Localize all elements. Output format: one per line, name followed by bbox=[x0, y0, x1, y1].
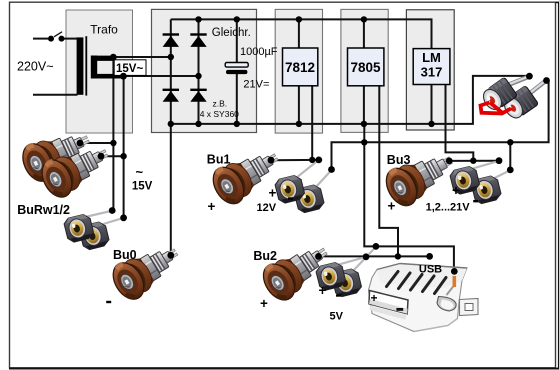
node Bu3 plus junction bbox=[470, 158, 476, 164]
Bu2 socket pair leads bbox=[337, 247, 376, 271]
wire U1 output to Bu1 bbox=[311, 86, 313, 160]
svg-text:15V: 15V bbox=[132, 181, 153, 193]
U3 chip box LM317 bbox=[413, 49, 450, 85]
BuRw2 binding post bbox=[36, 135, 116, 202]
svg-text:317: 317 bbox=[421, 65, 443, 80]
rectifier box Gleichr. bbox=[152, 9, 257, 132]
svg-text:7805: 7805 bbox=[350, 60, 381, 75]
Bu0 binding post bbox=[107, 235, 187, 305]
BuRw1 binding post bbox=[17, 121, 96, 186]
node BuRw2 lead bbox=[98, 153, 105, 160]
svg-text:+: + bbox=[208, 199, 216, 214]
transformer T1 primary bar bbox=[77, 37, 84, 94]
transformer core bbox=[85, 36, 87, 95]
BuRw socket pair bbox=[78, 220, 111, 252]
node Bu3 pair plus lead bbox=[496, 157, 503, 164]
diode D4 bbox=[190, 89, 206, 102]
svg-text:+: + bbox=[388, 199, 396, 214]
node rectifier AC1 bbox=[168, 54, 174, 60]
node BuRw1 lead bbox=[77, 140, 84, 147]
Bu3 socket pair bbox=[470, 174, 503, 206]
svg-text:21V=: 21V= bbox=[243, 79, 269, 91]
svg-text:+: + bbox=[452, 183, 460, 198]
svg-text:1000µF: 1000µF bbox=[240, 46, 278, 58]
node plug P1 pin bbox=[543, 77, 550, 84]
svg-text:~: ~ bbox=[136, 165, 144, 180]
node switch contact right bbox=[59, 36, 65, 42]
svg-text:BuRw1/2: BuRw1/2 bbox=[17, 203, 70, 217]
svg-text:7812: 7812 bbox=[285, 60, 315, 75]
regulator cage U3 LM317 bbox=[406, 10, 454, 130]
svg-text:1,2...21V: 1,2...21V bbox=[426, 202, 471, 214]
red wire of plug pair bbox=[481, 103, 512, 114]
Bu1 binding post bbox=[207, 139, 287, 209]
switch S1 lever bbox=[54, 32, 62, 37]
node bottom rail C1 bbox=[234, 121, 240, 127]
svg-text:z.B.: z.B. bbox=[213, 99, 228, 109]
Bu3 socket pair leads bbox=[471, 161, 510, 179]
node 12V junction bbox=[309, 157, 315, 163]
15V~ label box bbox=[114, 60, 146, 76]
plug pair pins bbox=[508, 77, 546, 94]
wire Bu3 pair minus drop bbox=[509, 142, 511, 170]
svg-text:+: + bbox=[269, 186, 277, 201]
minus Bu2 pair bbox=[336, 294, 341, 296]
node bottom rail U3 gnd bbox=[428, 121, 434, 127]
svg-text:Bu2: Bu2 bbox=[253, 249, 277, 263]
U2 chip box 7805 bbox=[348, 48, 384, 86]
rca plug P2 bbox=[480, 77, 518, 113]
wire switch to primary bbox=[62, 38, 78, 40]
node secondary top tap bbox=[110, 54, 117, 61]
Bu2 socket pair bbox=[330, 267, 363, 299]
minus Bu3 pair bbox=[473, 200, 478, 202]
U1 chip box 7812 bbox=[283, 48, 318, 86]
wire secondary top to rectifier bbox=[110, 56, 171, 58]
wire Bu3 plus line bbox=[449, 160, 499, 162]
node rectifier AC2 bbox=[195, 73, 201, 79]
Bu1 socket pair bbox=[293, 183, 326, 215]
node ground line Bu3 drop bbox=[507, 139, 513, 145]
diode D1 bbox=[163, 33, 179, 47]
wire U3 ground bbox=[431, 85, 433, 124]
wire top rail bbox=[171, 19, 432, 48]
wire rectifier right column bbox=[198, 19, 200, 124]
image edge right bbox=[558, 2, 559, 370]
wire AC B branch bbox=[101, 155, 124, 157]
wire capacitor top bbox=[236, 19, 238, 62]
wire capacitor bottom bbox=[236, 72, 238, 124]
wire ground distribution bbox=[332, 81, 549, 170]
svg-text:Bu0: Bu0 bbox=[113, 248, 137, 262]
node ground line U2 bridge bbox=[361, 139, 367, 145]
wire secondary bottom to rectifier bbox=[120, 75, 199, 77]
wire U2 ground bbox=[363, 86, 365, 124]
capacitor C1 plates bbox=[225, 63, 248, 68]
wire U2 input bbox=[363, 19, 365, 48]
svg-text:Trafo: Trafo bbox=[90, 23, 118, 37]
node bottom rail minus bbox=[168, 121, 174, 127]
node Bu0 lead bbox=[167, 252, 174, 259]
wire U1 ground bbox=[298, 86, 300, 124]
Bu3 binding post bbox=[380, 142, 460, 211]
node top rail U2 in bbox=[361, 16, 367, 22]
regulator cage U2 7805 bbox=[341, 9, 388, 132]
Bu2 binding post bbox=[257, 234, 337, 306]
diode D2 bbox=[190, 33, 206, 47]
svg-text:+: + bbox=[260, 296, 268, 311]
node Bu3 pair minus lead bbox=[507, 167, 514, 174]
wire 12V plus line bbox=[271, 159, 319, 161]
wire minus rail to Bu0 bbox=[170, 19, 172, 255]
node Bu2 pair minus lead bbox=[373, 243, 380, 250]
node Bu1 pair minus lead bbox=[328, 166, 335, 173]
wire AC A branch bbox=[80, 142, 113, 144]
wire 220V live to switch bbox=[33, 38, 48, 40]
svg-text:USB: USB bbox=[419, 264, 442, 276]
node USB plus bbox=[426, 253, 433, 260]
node top rail D2 bbox=[195, 16, 201, 22]
BuRw socket pair leads bbox=[85, 211, 123, 225]
node top rail C1 bbox=[234, 16, 240, 22]
image edge bottom bbox=[9, 368, 559, 370]
node bottom rail U2 gnd bbox=[361, 121, 367, 127]
minus Bu0 bbox=[106, 301, 111, 303]
wire AC B down bbox=[123, 76, 125, 218]
svg-text:LM: LM bbox=[422, 50, 441, 65]
svg-text:220V~: 220V~ bbox=[17, 60, 54, 74]
node Bu3 lead bbox=[446, 158, 453, 165]
wire ground bridge to usb bbox=[364, 124, 454, 272]
svg-text:Bu1: Bu1 bbox=[207, 153, 231, 167]
node bottom rail U1 gnd bbox=[296, 121, 302, 127]
node plug P2 pin bbox=[526, 73, 533, 80]
node USB minus bbox=[451, 268, 458, 275]
wire 5V plus line bbox=[319, 255, 430, 257]
node BuRw pair lead2 bbox=[120, 214, 127, 221]
svg-text:+: + bbox=[319, 283, 327, 298]
node Bu2 lead bbox=[315, 253, 322, 260]
wire bottom rail bbox=[171, 76, 530, 124]
node bottom rail D4 bbox=[195, 121, 201, 127]
svg-text:15V~: 15V~ bbox=[116, 63, 143, 75]
svg-text:5V: 5V bbox=[330, 311, 344, 323]
svg-text:12V: 12V bbox=[257, 202, 277, 214]
regulator cage U1 7812 bbox=[275, 9, 322, 133]
node 5V junction bbox=[395, 253, 401, 259]
node secondary bottom tap bbox=[120, 73, 127, 80]
svg-text:Gleichr.: Gleichr. bbox=[212, 27, 251, 39]
node Bu1 pair plus lead bbox=[315, 157, 322, 164]
transformer secondary winding bbox=[91, 56, 124, 79]
node AC B branch bbox=[120, 153, 126, 159]
image edge top right stub bbox=[556, 2, 559, 4]
node switch contact left bbox=[48, 36, 54, 42]
node BuRw pair lead1 bbox=[109, 207, 116, 214]
wire 220V return bbox=[33, 94, 78, 96]
svg-text:4 x SY360: 4 x SY360 bbox=[200, 109, 239, 119]
node AC A branch bbox=[110, 140, 116, 146]
wire AC A down bbox=[112, 57, 114, 210]
Bu1 socket pair leads bbox=[296, 161, 332, 188]
node Bu2 pair plus lead bbox=[363, 253, 370, 260]
svg-text:+: + bbox=[371, 291, 378, 305]
node Bu1 lead bbox=[268, 157, 275, 164]
diode D3 bbox=[163, 89, 179, 102]
wire U1 input bbox=[298, 19, 300, 48]
wire U2 output to 5V line bbox=[379, 86, 398, 257]
node top rail U1 in bbox=[296, 16, 302, 22]
Trafo box bbox=[66, 10, 133, 133]
minus Bu1 pair bbox=[288, 197, 293, 199]
rca plug P1 bbox=[501, 86, 539, 122]
svg-text:Bu3: Bu3 bbox=[387, 153, 411, 167]
USB socket J1 bbox=[369, 264, 479, 332]
wire U3 output jog bbox=[446, 85, 474, 161]
